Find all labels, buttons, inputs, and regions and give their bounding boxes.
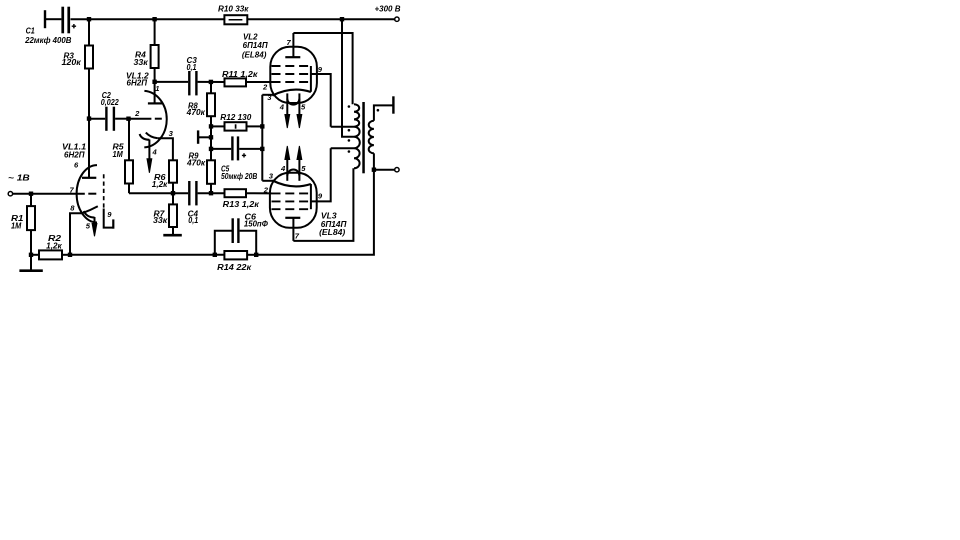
resistor R5 1М (125, 160, 133, 183)
wire: top B+ rail right segment (R10 to +300V terminal) (247, 18, 394, 20)
terminal output (395, 168, 399, 172)
svg-text:R12 130: R12 130 (220, 113, 252, 122)
VL2 g3-to-cathode tie (310, 66, 312, 92)
pin 9 label VL2 (318, 65, 323, 74)
value label R12 130 (220, 113, 252, 122)
svg-text:4: 4 (280, 164, 286, 173)
resistor R9 470к (207, 160, 215, 184)
junction: R1 / R2 / ground (29, 253, 33, 257)
resistor R13 1,2к (225, 189, 247, 197)
value label R11 1,2к (222, 70, 258, 79)
polarity dot primary section 1 (348, 105, 351, 108)
pin 2 label VL3 (263, 185, 269, 194)
wire: VL1.1 cathode riser pin 8 (70, 213, 82, 255)
polarity dot secondary (377, 109, 380, 112)
capacitor C2 0,022 (89, 107, 129, 131)
wire: VL3 cathode lead to shared cathode line (262, 180, 273, 182)
wire: ground-ladder vertical R8 bottom to R9 top (210, 116, 212, 160)
resistor R12 130 (225, 122, 247, 130)
VL1.2 cathode (pin 3) (146, 133, 158, 139)
svg-text:1М: 1М (113, 150, 123, 159)
svg-text:C1: C1 (26, 26, 36, 35)
VL3 grid g2 row (272, 200, 310, 202)
junction: R12 right / cathode line (260, 124, 264, 128)
value label C3 0,1 (187, 56, 198, 72)
VL2 heater (pins 4,5) with arrows (285, 93, 302, 128)
wire: R6 bottom to node (172, 183, 174, 194)
wire: shared cathode line VL2 to VL3 (261, 95, 263, 181)
junction: R2 / VL1.1 cathode / NFB rail (68, 253, 72, 257)
resistor R10 33к (224, 15, 247, 24)
wire: output junction to terminal (374, 169, 395, 171)
resistor R14 22к (224, 251, 247, 259)
svg-text:470к: 470к (186, 108, 206, 117)
wire: anode node to C3 (155, 81, 189, 83)
junction: R5 / R6 / R7 / C4 (171, 191, 175, 195)
value label R2 1,2к (46, 234, 62, 251)
VL1.2 heater with arrow (pin 4) (140, 134, 152, 173)
resistor R2 1,2к (39, 250, 62, 259)
svg-text:2: 2 (262, 83, 268, 92)
junction: input / R1 (29, 192, 33, 196)
svg-text:2: 2 (263, 185, 269, 194)
svg-text:8: 8 (70, 204, 75, 213)
VL2 screen lead pin 9 to UL tap (311, 74, 331, 127)
value label C4 0,1 (188, 210, 199, 226)
pin 4 label VL3 (280, 164, 286, 173)
svg-text:R10 33к: R10 33к (218, 5, 249, 14)
svg-text:4: 4 (279, 102, 285, 111)
pin 7 label VL3 (295, 232, 300, 241)
wire: R1 top lead (30, 194, 32, 206)
svg-text:7: 7 (287, 38, 292, 47)
svg-text:5: 5 (301, 102, 306, 111)
value label R3 120к (62, 52, 82, 68)
svg-text:1: 1 (155, 84, 159, 93)
VL3 screen lead pin 9 to UL tap (311, 148, 331, 201)
pentode VL3 envelope (270, 173, 317, 228)
VL3 cathode (pin 3) (273, 181, 311, 187)
resistor R3 120к (85, 46, 93, 69)
svg-text:6Н2П: 6Н2П (64, 150, 85, 159)
svg-text:R13 1,2к: R13 1,2к (223, 200, 260, 209)
svg-text:3: 3 (269, 171, 274, 180)
svg-text:120к: 120к (62, 58, 82, 67)
wire: R5/R6/R7 node to C4 (129, 192, 188, 194)
svg-text:150пФ: 150пФ (244, 220, 269, 229)
triode VL1.2 envelope (half) (144, 91, 166, 147)
VL2 grid g1 row (pin 2) (272, 81, 310, 83)
svg-text:0,022: 0,022 (101, 98, 119, 107)
pin 8 label VL1.1 (70, 204, 75, 213)
value label C2 0,022 (101, 91, 119, 107)
capacitor C5 50мкф 20В (231, 136, 246, 160)
resistor R4 33к (151, 45, 159, 68)
VL3 heater (pins 4,5) with arrows (285, 146, 302, 181)
ground (chassis bar below R1) (19, 255, 42, 271)
VL2 cathode (pin 3) (273, 90, 311, 96)
wire: R12 right to cathode line (247, 125, 263, 127)
svg-text:5: 5 (301, 164, 306, 173)
wire: VL1.2 cathode to R6 (158, 138, 173, 160)
wire: R14 right lead (247, 254, 256, 256)
svg-text:22мкф 400В: 22мкф 400В (24, 36, 71, 45)
wire: R2 to cathode riser junction (62, 254, 70, 256)
svg-text:33к: 33к (153, 216, 168, 225)
svg-text:R14 22к: R14 22к (217, 263, 252, 272)
terminal +300 В (395, 17, 399, 21)
VL1.2 grid dash (pin 2) (155, 118, 162, 120)
ground (chassis bar below R7) (163, 227, 182, 235)
svg-text:6П14П: 6П14П (243, 41, 268, 50)
ground (chassis bar at R8/R9 node) (198, 130, 211, 143)
junction: C2 / VL1.2 grid / R5 (126, 117, 130, 121)
svg-text:1,2к: 1,2к (46, 242, 62, 251)
VL1.1 heater tap pin 9 to chassis (104, 209, 114, 229)
wire: upper UL tap to VL2 screen line (331, 126, 354, 128)
terminal input ~1В (8, 192, 12, 196)
wire: secondary top to chassis (374, 105, 393, 120)
VL1.1 anode (pin 6) (82, 119, 96, 178)
svg-text:50мкф 20В: 50мкф 20В (221, 172, 257, 181)
tube label VL1.2 6Н2П (126, 71, 149, 87)
pin 2 label VL2 (262, 83, 268, 92)
triode VL1.1 envelope (half, dashed side) (77, 165, 104, 222)
capacitor C4 0,1 (188, 181, 197, 205)
wire: R3 bottom to VL1.1 anode node (88, 69, 90, 119)
pin 3 label VL1.2 (169, 129, 174, 138)
junction: secondary / output terminal / NFB (372, 168, 376, 172)
wire: rail junction to R2 (31, 254, 39, 256)
transformer T1 secondary winding (369, 121, 374, 154)
wire: R1 bottom to ground/rail junction (30, 230, 32, 255)
capacitor C1 22мкф 400В (input electrolytic) (45, 7, 76, 34)
junction: R12 left on ladder (209, 124, 213, 128)
pin 5 label VL3 (301, 164, 306, 173)
svg-text:33к: 33к (134, 58, 149, 67)
svg-text:4: 4 (152, 148, 158, 157)
svg-text:R11 1,2к: R11 1,2к (222, 70, 258, 79)
junction: rail / C6 left / R14 left (213, 253, 217, 257)
wire: R5 riser from grid node (128, 119, 130, 161)
wire: R12 left lead (211, 125, 225, 127)
wire: secondary bottom to output junction (373, 153, 375, 169)
svg-text:470к: 470к (186, 158, 206, 167)
pin 6 label VL1.1 (74, 161, 79, 170)
svg-text:5: 5 (86, 221, 91, 230)
VL2 grid g2 row (272, 73, 310, 75)
transformer T1 primary winding (with UL taps) (354, 104, 360, 168)
wire: top B+ rail left segment (C1 junction to R10) (71, 18, 225, 20)
resistor R11 1,2к (225, 78, 247, 86)
svg-text:3: 3 (169, 129, 174, 138)
resistor R1 1М (27, 206, 35, 230)
wire: C5 right to cathode line (239, 148, 262, 150)
wire: grid node to VL1.2 grid (129, 118, 152, 120)
value label C1 22мкф 400В (24, 26, 71, 45)
pin 1 label VL1.2 (155, 84, 159, 93)
pentode VL2 envelope (270, 47, 317, 103)
node label +300 В (375, 5, 401, 14)
wire: lower UL tap to VL3 screen line (331, 147, 354, 149)
pin 7 label VL2 (287, 38, 292, 47)
wire: B+ drop to primary centre tap (342, 19, 354, 137)
value label R8 470к (186, 101, 206, 117)
wire: VL2 cathode lead to shared cathode line (262, 94, 273, 96)
wire: R13 to VL3 grid pin 2 (246, 192, 272, 194)
svg-text:9: 9 (107, 210, 112, 219)
pin 4 label VL2 (279, 102, 285, 111)
junction: C5 right / cathode line (260, 147, 264, 151)
VL2 anode (pin 7) (285, 33, 300, 57)
pin 9 label VL3 (318, 192, 323, 201)
wire: R7 top lead (172, 193, 174, 204)
tube label VL1.1 6Н2П (62, 143, 87, 160)
svg-text:9: 9 (318, 65, 323, 74)
pin 9 label VL1.1 (107, 210, 112, 219)
svg-text:2: 2 (134, 109, 140, 118)
resistor R8 470к (207, 93, 215, 116)
svg-text:~ 1В: ~ 1В (8, 174, 30, 183)
capacitor C6 150пФ (across R14) (215, 218, 256, 255)
pin 3 label VL2 (267, 93, 272, 102)
polarity dot primary section 4 (348, 150, 351, 153)
pin 5 label VL2 (301, 102, 306, 111)
VL1.2 anode (pin 1) (148, 82, 163, 104)
value label C6 150пФ (244, 212, 269, 228)
wire: VL2 anode to primary top (293, 33, 352, 104)
wire: R9 bottom to C4/R13 node (210, 184, 212, 193)
svg-text:9: 9 (318, 192, 323, 201)
svg-text:1М: 1М (11, 222, 21, 231)
polarity dot primary section 3 (348, 139, 351, 142)
VL1.1 cathode (pin 8) (82, 206, 98, 213)
pin 5 label VL1.1 (86, 221, 91, 230)
VL1.1 grid dash (pin 7) (88, 193, 96, 195)
capacitor C3 0,1 (188, 71, 197, 95)
svg-text:6Н2П: 6Н2П (127, 78, 148, 87)
VL3 grid g3 row (272, 208, 310, 210)
svg-text:1,2к: 1,2к (152, 180, 168, 189)
node label ~ 1В input (8, 174, 30, 183)
wire: R11 to VL2 grid pin 2 (246, 81, 272, 83)
wire: C5 left lead (211, 148, 231, 150)
value label R1 1М (11, 214, 24, 231)
svg-text:6: 6 (74, 161, 79, 170)
wire: R4 bottom to VL1.2 anode node (154, 68, 156, 82)
pin 7 label VL1.1 (70, 185, 75, 194)
resistor R7 33к (169, 204, 177, 227)
resistor R6 1,2к (169, 160, 177, 182)
junction: C5 left on ladder (209, 147, 213, 151)
value label R7 33к (153, 210, 168, 226)
svg-text:(EL84): (EL84) (319, 228, 345, 237)
value label R13 1,2к (223, 200, 260, 209)
wire: C3 to R11 node (198, 81, 225, 83)
value label R10 33к (218, 5, 249, 14)
junction: R3 / C2 / VL1.1 anode (87, 116, 91, 120)
svg-text:7: 7 (295, 232, 300, 241)
wire: NFB drop from output junction to bottom rail (256, 170, 374, 255)
VL1.1 heater with arrow (pin 5) (84, 211, 97, 236)
wire: R8 top lead (210, 82, 212, 93)
svg-text:0,1: 0,1 (188, 216, 198, 225)
ground (chassis bar at secondary top) (392, 96, 394, 113)
wire: C4 to R13 (198, 192, 225, 194)
value label R4 33к (134, 51, 149, 67)
value label R14 22к (217, 263, 252, 272)
junction: R4 / VL1.2 anode / C3 (152, 80, 156, 84)
svg-text:+300 В: +300 В (375, 5, 401, 14)
junction: R4 top on rail (152, 17, 156, 21)
tube label VL2 6П14П (EL84) (242, 33, 268, 60)
value label R6 1,2к (152, 173, 168, 189)
VL3 grid g1 row (pin 2) (272, 192, 310, 194)
pin 3 label VL3 (269, 171, 274, 180)
VL2 grid g3 row (272, 65, 310, 67)
VL3 g3-to-cathode tie (310, 184, 312, 209)
wire: R5 bottom to node row (128, 184, 130, 194)
junction: ground tap on ladder (209, 135, 213, 139)
wire: R4 top lead (154, 19, 156, 45)
value label R9 470к (186, 152, 206, 168)
junction: C1 / R3 / top rail (87, 17, 91, 21)
value label C5 50мкф 20В (221, 165, 257, 181)
transformer T1 core (362, 102, 365, 173)
tube label VL3 6П14П (EL84) (319, 212, 347, 237)
polarity dot primary section 2 (348, 129, 351, 132)
VL3 anode (pin 7) (285, 218, 300, 241)
junction: R9 / C4 / R13 (209, 191, 213, 195)
wire: VL3 anode to primary bottom (293, 168, 353, 241)
pin 2 label VL1.2 (134, 109, 140, 118)
wire: R3 top lead (88, 19, 90, 45)
svg-text:(EL84): (EL84) (242, 50, 267, 59)
wire: input to VL1.1 grid pin 7 (13, 193, 85, 195)
pin 4 label VL1.2 (152, 148, 158, 157)
junction: B+ drop to transformer (340, 17, 344, 21)
svg-text:0,1: 0,1 (187, 63, 197, 72)
junction: C3 / R11 / R8 (209, 80, 213, 84)
wire: NFB rail (bottom) to R14 (70, 254, 224, 256)
value label R5 1М (113, 143, 125, 160)
junction: rail / C6 right / R14 right (254, 253, 258, 257)
